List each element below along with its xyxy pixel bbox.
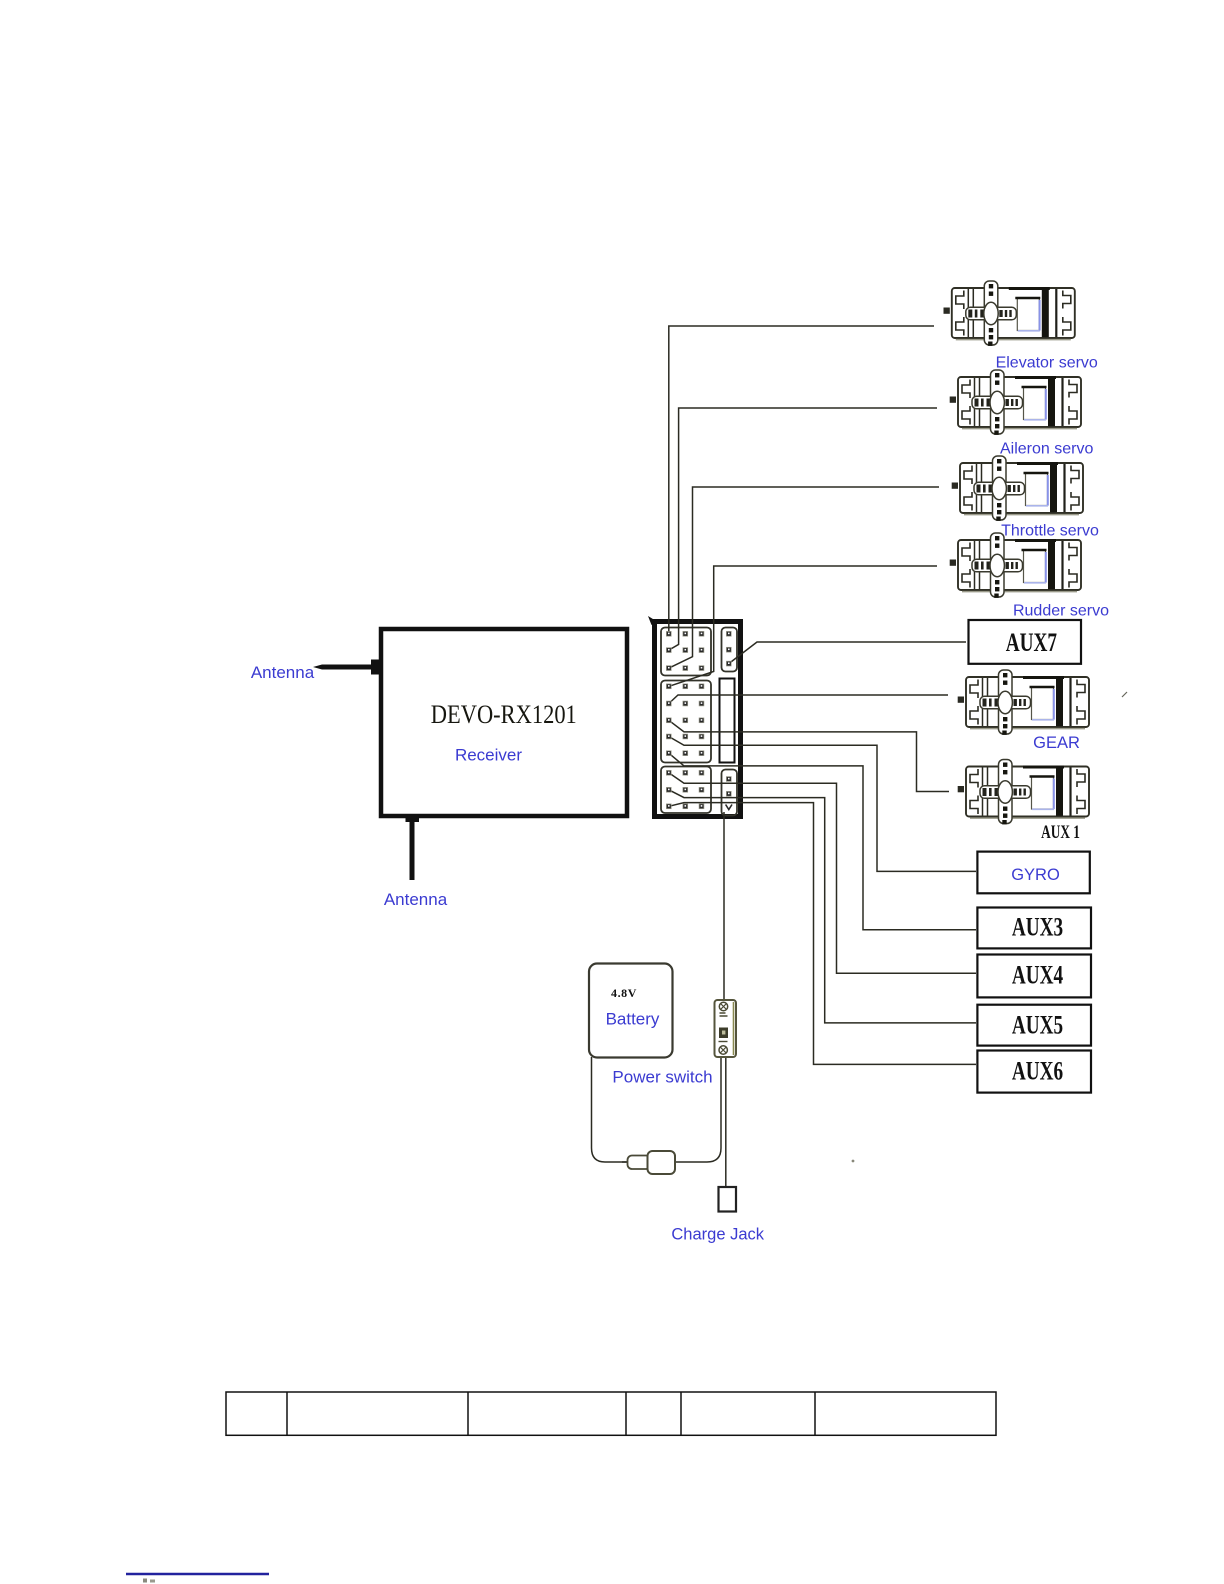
svg-text:Antenna: Antenna [251,663,315,682]
svg-text:AUX 1: AUX 1 [1041,823,1080,843]
svg-text:Antenna: Antenna [384,890,448,909]
svg-text:AUX3: AUX3 [1012,913,1063,941]
svg-text:GYRO: GYRO [1011,866,1060,884]
svg-text:Throttle servo: Throttle servo [1001,523,1099,540]
svg-text:Battery: Battery [606,1010,660,1029]
svg-text:Receiver: Receiver [455,746,522,765]
svg-text:Charge Jack: Charge Jack [671,1226,764,1244]
svg-text:Elevator servo: Elevator servo [996,355,1098,372]
svg-text:DEVO-RX1201: DEVO-RX1201 [431,699,577,729]
svg-text:AUX6: AUX6 [1012,1057,1063,1085]
svg-text:AUX5: AUX5 [1012,1011,1063,1039]
svg-text:4.8V: 4.8V [611,986,637,1000]
svg-text:AUX7: AUX7 [1006,628,1057,656]
svg-text:Power switch: Power switch [612,1068,712,1087]
svg-text:Aileron servo: Aileron servo [1000,440,1093,457]
svg-text:Rudder servo: Rudder servo [1013,603,1109,620]
svg-text:AUX4: AUX4 [1012,961,1063,989]
svg-text:GEAR: GEAR [1033,734,1080,752]
